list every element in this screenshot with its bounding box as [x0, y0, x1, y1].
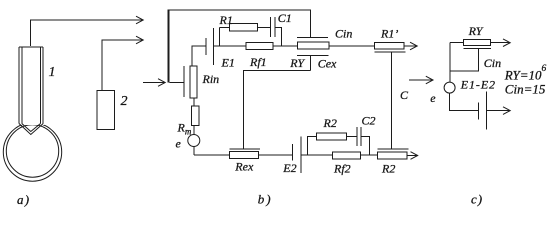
- electrode 1 lead wire with arrow: [31, 16, 144, 47]
- bottom wire Rex to E2: [259, 154, 292, 156]
- svg-text:e: e: [430, 91, 436, 105]
- battery E1: [206, 28, 214, 65]
- wire node to R1: [220, 27, 230, 29]
- svg-text:C: C: [400, 88, 409, 102]
- output arrow of bottom line: [407, 152, 418, 160]
- electrode bulb (double circle): [3, 123, 61, 181]
- input wire down to source (c): [449, 43, 451, 82]
- svg-text:RY: RY: [289, 56, 305, 70]
- svg-text:1: 1: [49, 65, 56, 80]
- svg-text:Rm: Rm: [177, 121, 192, 137]
- resistor Rm: [192, 106, 199, 125]
- svg-text:Rin: Rin: [202, 72, 220, 86]
- svg-text:E1-E2: E1-E2: [460, 78, 496, 92]
- battery E2: [292, 136, 301, 173]
- svg-text:R2: R2: [323, 116, 337, 130]
- RY bottom plate Cin (c): [463, 48, 491, 50]
- RY output arrow (c): [491, 39, 511, 47]
- cable capacitance C wire: [391, 52, 393, 149]
- svg-text:Rex: Rex: [234, 160, 254, 174]
- svg-text:E2: E2: [282, 161, 296, 175]
- wire E2 to node: [301, 154, 307, 156]
- svg-text:Rf1: Rf1: [249, 55, 267, 69]
- resistor R2 (output): [378, 152, 408, 159]
- Cex stub down: [310, 56, 312, 71]
- input plate (vertical): [183, 66, 185, 97]
- wire R1 to C1: [258, 27, 271, 29]
- equivalence arrow between b) and c): [409, 76, 433, 84]
- svg-text:2: 2: [121, 94, 128, 109]
- resistor R1': [375, 42, 404, 49]
- source e (circle): [188, 135, 200, 147]
- input arrow into b): [143, 79, 165, 87]
- top rail wire to RY top plate: [168, 10, 311, 38]
- svg-text:Cin: Cin: [484, 56, 501, 70]
- electrode membrane V tip: [19, 124, 43, 135]
- svg-text:e: e: [176, 137, 182, 151]
- battery E1-E2 (c): [478, 92, 486, 130]
- resistor R1: [230, 24, 258, 32]
- main wire Rf1 to RY: [273, 45, 297, 47]
- wire bus to input plate: [170, 82, 184, 84]
- electrode glass tube body: [18, 46, 45, 125]
- wire e to bottom line: [193, 147, 195, 156]
- resistor Rex: [230, 152, 259, 159]
- svg-text:Cin=15: Cin=15: [505, 82, 546, 97]
- wire source to battery (c): [450, 93, 478, 111]
- resistor Rin: [190, 66, 197, 98]
- svg-text:Cex: Cex: [318, 56, 337, 70]
- svg-text:C2: C2: [362, 114, 376, 128]
- bottom wire Rf2 to R2 out: [360, 154, 377, 156]
- svg-text:a): a): [17, 192, 30, 207]
- reference electrode box 2: [97, 90, 115, 129]
- svg-text:C1: C1: [278, 11, 292, 25]
- wire Rm to e: [193, 125, 195, 134]
- R1' bottom plate: [375, 51, 406, 53]
- output arrow of top line: [404, 42, 417, 50]
- svg-text:R1’: R1’: [380, 27, 398, 41]
- svg-text:E1: E1: [221, 56, 235, 70]
- wire left of RY (c): [450, 42, 463, 44]
- bottom wire node to Rf2: [308, 154, 333, 156]
- box 2 lead wire with arrow: [102, 36, 143, 90]
- resistor Rf1: [246, 42, 273, 49]
- node riser to R1 branch: [219, 28, 221, 47]
- wire Rin to Rm: [193, 98, 195, 106]
- svg-text:Rf2: Rf2: [333, 162, 351, 176]
- resistor R2 (feedback branch): [317, 133, 347, 140]
- svg-text:c): c): [471, 192, 483, 207]
- resistor RY: [297, 42, 329, 49]
- wire E1 to node: [214, 45, 220, 47]
- capacitor C1: [270, 17, 275, 37]
- battery output arrow (c): [487, 107, 511, 115]
- svg-text:b): b): [258, 192, 273, 207]
- resistor Rf2: [332, 152, 360, 159]
- wire Rin top to E1: [192, 46, 206, 66]
- main wire E1 node to Rf1: [220, 45, 246, 47]
- resistor RY (c): [463, 40, 490, 46]
- wire C2 down to bottom line: [361, 137, 370, 156]
- svg-text:R2: R2: [381, 162, 395, 176]
- R2 top plate: [378, 148, 409, 150]
- input bus (thick vertical line): [168, 10, 170, 83]
- shield wire to Rex plate: [244, 70, 311, 149]
- svg-text:RY: RY: [468, 24, 484, 38]
- Cin return wire (c): [450, 49, 479, 71]
- Rex top plate: [230, 148, 261, 150]
- source e circle (c): [444, 82, 455, 93]
- wire C1 down to main line: [275, 28, 282, 47]
- RY bottom plate (Cex): [297, 55, 329, 57]
- svg-text:R1: R1: [219, 13, 233, 27]
- node riser to R2 branch: [308, 137, 317, 156]
- wire R2 to C2: [346, 136, 356, 138]
- bottom wire e to Rex: [194, 154, 230, 156]
- RY top plate (Cin): [297, 37, 328, 39]
- svg-text:Cin: Cin: [335, 27, 352, 41]
- capacitor C2: [357, 127, 361, 146]
- main wire RY to R1': [329, 45, 375, 47]
- svg-text:RY=106: RY=106: [504, 64, 547, 83]
